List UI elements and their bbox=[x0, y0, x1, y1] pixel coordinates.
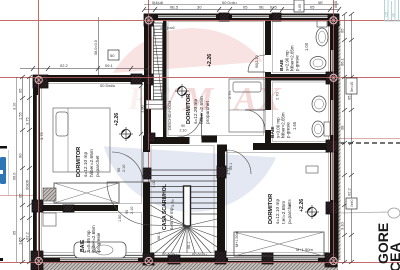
svg-text:90|2.10: 90|2.10 bbox=[255, 55, 259, 68]
svg-text:06.0: 06.0 bbox=[13, 173, 17, 180]
svg-text:0E: 0E bbox=[259, 5, 264, 10]
svg-text:05: 05 bbox=[310, 5, 315, 10]
svg-text:0E: 0E bbox=[318, 0, 323, 5]
svg-text:1.55: 1.55 bbox=[18, 111, 23, 120]
svg-text:90: 90 bbox=[117, 168, 121, 172]
svg-text:05: 05 bbox=[340, 28, 345, 33]
svg-text:M+1.50m: M+1.50m bbox=[235, 231, 239, 247]
svg-text:3.10: 3.10 bbox=[340, 221, 345, 230]
svg-text:125: 125 bbox=[385, 11, 389, 17]
svg-text:02.2: 02.2 bbox=[347, 187, 352, 196]
svg-text:00.6=0u: 00.6=0u bbox=[192, 252, 207, 257]
svg-text:DORMITOR: DORMITOR bbox=[268, 194, 274, 224]
svg-text:DESCHID=HOCM: DESCHID=HOCM bbox=[168, 101, 172, 130]
svg-text:00|8: 00|8 bbox=[334, 1, 338, 8]
svg-text:0|4|u6: 0|4|u6 bbox=[152, 0, 164, 5]
svg-text:08: 08 bbox=[392, 13, 396, 17]
svg-text:0e#0: 0e#0 bbox=[350, 199, 354, 207]
svg-text:DEPLINA ACCES POD: DEPLINA ACCES POD bbox=[164, 92, 168, 130]
svg-text:2.70: 2.70 bbox=[275, 91, 280, 100]
svg-text:08.1: 08.1 bbox=[157, 233, 161, 240]
svg-text:90: 90 bbox=[18, 153, 23, 158]
svg-text:1.00: 1.00 bbox=[151, 179, 156, 188]
svg-text:0=5: 0=5 bbox=[270, 5, 278, 10]
svg-text:02.2: 02.2 bbox=[25, 231, 30, 240]
svg-text:00 0=#u: 00 0=#u bbox=[222, 0, 237, 5]
svg-text:50: 50 bbox=[110, 53, 115, 58]
svg-text:2.70: 2.70 bbox=[227, 90, 232, 99]
svg-text:M+1.50m: M+1.50m bbox=[83, 249, 100, 254]
svg-text:06.1: 06.1 bbox=[340, 57, 345, 66]
svg-text:3.7b: 3.7b bbox=[170, 198, 175, 207]
svg-text:3.75: 3.75 bbox=[25, 116, 30, 125]
svg-text:05: 05 bbox=[18, 193, 23, 198]
svg-text:1.00: 1.00 bbox=[304, 42, 309, 51]
svg-text:02.2: 02.2 bbox=[60, 63, 69, 68]
svg-text:08.0=0.0: 08.0=0.0 bbox=[94, 40, 98, 55]
svg-text:+2.26: +2.26 bbox=[207, 54, 213, 67]
svg-text:1.55: 1.55 bbox=[18, 236, 23, 245]
svg-text:05.1: 05.1 bbox=[229, 163, 233, 170]
svg-text:00|06: 00|06 bbox=[25, 179, 30, 190]
svg-text:CASA SCARII/HOL: CASA SCARII/HOL bbox=[162, 183, 168, 230]
svg-text:3.75: 3.75 bbox=[39, 131, 44, 140]
svg-text:00.6=0u: 00.6=0u bbox=[162, 252, 177, 257]
svg-text:1.65: 1.65 bbox=[292, 121, 297, 130]
svg-text:06.1: 06.1 bbox=[187, 242, 191, 249]
svg-text:09.1: 09.1 bbox=[105, 63, 114, 68]
svg-text:0E.5: 0E.5 bbox=[170, 5, 179, 10]
svg-text:2.10: 2.10 bbox=[122, 165, 126, 172]
svg-text:CEA: CEA bbox=[387, 242, 400, 270]
svg-text:s=12.10 mp: s=12.10 mp bbox=[83, 151, 89, 177]
svg-text:05: 05 bbox=[243, 5, 248, 10]
svg-text:M+1.50m: M+1.50m bbox=[296, 247, 313, 252]
svg-text:p-gresie: p-gresie bbox=[295, 55, 300, 71]
svg-text:90: 90 bbox=[125, 210, 129, 214]
svg-text:p-gresie: p-gresie bbox=[286, 122, 291, 138]
svg-text:3.10: 3.10 bbox=[13, 103, 17, 110]
svg-text:08: 08 bbox=[340, 125, 345, 130]
svg-text:3.75: 3.75 bbox=[287, 198, 292, 207]
svg-text:DORMITOR: DORMITOR bbox=[76, 147, 82, 177]
svg-text:s=12.20 mp: s=12.20 mp bbox=[193, 98, 199, 124]
svg-text:05: 05 bbox=[13, 231, 17, 235]
svg-text:05: 05 bbox=[18, 88, 23, 93]
svg-text:30: 30 bbox=[197, 5, 202, 10]
svg-text:1.80: 1.80 bbox=[140, 104, 145, 113]
svg-text:2.10: 2.10 bbox=[180, 129, 187, 133]
svg-text:hliber=2.65m: hliber=2.65m bbox=[199, 96, 205, 124]
svg-text:s=12.10 mp: s=12.10 mp bbox=[275, 198, 281, 224]
svg-text:00 De#u: 00 De#u bbox=[100, 83, 115, 88]
svg-text:90: 90 bbox=[181, 124, 185, 128]
svg-text:=0p|=u6: =0p|=u6 bbox=[160, 25, 175, 30]
svg-text:p=parchet: p=parchet bbox=[95, 155, 101, 177]
svg-text:A: A bbox=[232, 81, 257, 118]
svg-text:0e=40: 0e=40 bbox=[350, 82, 354, 92]
svg-text:1.50: 1.50 bbox=[118, 215, 122, 222]
svg-text:+2.26: +2.26 bbox=[299, 199, 305, 212]
svg-text:proparchet: proparchet bbox=[205, 100, 211, 124]
svg-text:3.05: 3.05 bbox=[298, 4, 302, 11]
svg-text:+2.26: +2.26 bbox=[114, 113, 120, 126]
svg-text:s=9.70 mp: s=9.70 mp bbox=[169, 207, 175, 230]
svg-text:2.10: 2.10 bbox=[130, 207, 134, 214]
svg-text:hliber=2.65m: hliber=2.65m bbox=[89, 149, 95, 177]
svg-text:DORMITOR: DORMITOR bbox=[186, 94, 192, 124]
